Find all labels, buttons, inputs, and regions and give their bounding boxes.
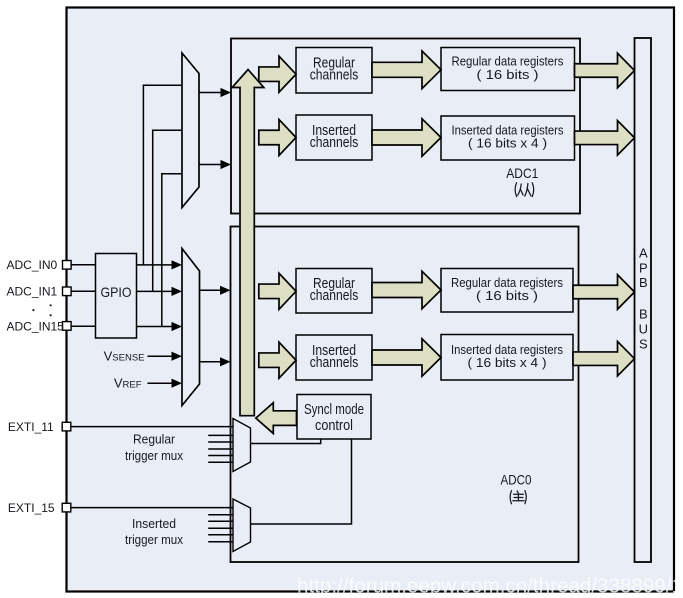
box Inserted data registers ADC1 — [441, 116, 575, 160]
block ADC1 (slave) outline — [231, 39, 580, 214]
svg-text:trigger mux: trigger mux — [125, 448, 183, 463]
arrow into Inserted channels ADC1 — [259, 120, 296, 156]
arrow Inserted channels to Inserted data registers ADC1 — [372, 119, 441, 157]
wire ADC_IN1 port to GPIO — [71, 290, 96, 292]
wire ADC1 mux output inserted — [199, 164, 222, 166]
svg-text:( 16 bits ): ( 16 bits ) — [477, 68, 539, 82]
vertical sync arrow between ADC0 and ADC1 — [232, 70, 264, 416]
svg-text:GPIO: GPIO — [101, 284, 132, 300]
box Syncl mode control — [297, 395, 371, 440]
svg-text:Regular data registers: Regular data registers — [451, 276, 563, 290]
box Regular channels ADC0 — [296, 269, 372, 314]
wire ADC0 mux output regular — [200, 289, 222, 291]
box Regular data registers ADC1 — [441, 48, 575, 91]
arrow Regular channels to Regular data registers ADC0 — [372, 271, 441, 309]
arrow into Regular channels ADC1 — [259, 56, 296, 92]
svg-text:U: U — [639, 321, 648, 336]
GPIO box — [96, 254, 137, 339]
wire EXTI_15 to inserted trigger mux — [71, 507, 233, 509]
svg-text:control: control — [315, 417, 353, 434]
wire regular trigger mux to Syncl mode control — [251, 439, 321, 444]
port pin ADC_IN15 — [63, 322, 72, 331]
port pin EXTI_11 — [62, 422, 71, 431]
arrow into Inserted channels ADC0 — [259, 342, 296, 378]
arrow Regular data registers ADC1 to APB bus — [575, 53, 635, 88]
APB bus box — [635, 38, 652, 562]
arrow Regular channels to Regular data registers ADC1 — [372, 51, 441, 89]
wire inserted trigger mux to Syncl mode control — [251, 439, 352, 524]
wire GPIO to analog mux input 15 — [137, 326, 173, 328]
svg-text:Syncl mode: Syncl mode — [304, 401, 364, 418]
port pin ADC_IN1 — [63, 287, 72, 296]
wire branch up to ADC1 mux input 1 — [153, 130, 182, 291]
svg-text:Regular data registers: Regular data registers — [452, 55, 564, 69]
wire EXTI_11 to regular trigger mux — [71, 426, 233, 428]
wire VSENSE to mux — [148, 355, 173, 357]
port pin ADC_IN0 — [63, 261, 72, 270]
wire branch up to ADC1 mux input 15 — [162, 174, 182, 327]
svg-text:( 16 bits x 4 ): ( 16 bits x 4 ) — [468, 137, 547, 151]
svg-text:ADC_IN1: ADC_IN1 — [7, 285, 58, 299]
wire ADC1 mux output regular — [199, 92, 222, 94]
arrow into Regular channels ADC0 — [259, 273, 296, 309]
svg-text:ADC_IN15: ADC_IN15 — [7, 319, 65, 333]
wire ADC0 mux output inserted — [200, 361, 222, 363]
wire ADC_IN0 port to GPIO — [71, 264, 96, 266]
svg-text:ADC0: ADC0 — [501, 471, 532, 487]
ellipsis dots between channel labels — [32, 309, 34, 311]
box Regular channels ADC1 — [296, 48, 372, 94]
arrow Syncl mode control to sync bus — [256, 403, 297, 434]
box Inserted channels ADC0 — [296, 335, 372, 380]
box Inserted channels ADC1 — [296, 115, 372, 160]
svg-text:EXTI_11: EXTI_11 — [8, 420, 54, 434]
svg-text:( 16 bits ): ( 16 bits ) — [476, 289, 538, 303]
mux ADC0 channel select — [182, 249, 200, 406]
svg-text:Regular: Regular — [133, 432, 176, 447]
svg-text:S: S — [639, 336, 648, 351]
svg-text:B: B — [639, 306, 648, 321]
svg-text:EXTI_15: EXTI_15 — [8, 501, 55, 515]
wire ADC_IN15 port to GPIO — [71, 325, 96, 327]
svg-text:A: A — [639, 246, 648, 261]
regular trigger mux input stubs — [208, 434, 233, 436]
wire VREF to mux — [148, 382, 173, 384]
svg-text:channels: channels — [310, 134, 359, 151]
svg-text:P: P — [639, 260, 648, 275]
mux inserted trigger — [233, 499, 251, 552]
arrow Inserted channels to Inserted data registers ADC0 — [372, 339, 441, 377]
arrow Inserted data registers ADC1 to APB bus — [575, 121, 635, 156]
mux regular trigger — [233, 419, 251, 472]
svg-text:trigger mux: trigger mux — [125, 532, 183, 547]
label (zhu) master marker — [510, 491, 526, 504]
svg-text:Inserted: Inserted — [132, 516, 176, 531]
svg-text:( 16 bits x 4 ): ( 16 bits x 4 ) — [468, 356, 547, 370]
svg-text:channels: channels — [310, 67, 359, 84]
box Regular data registers ADC0 — [441, 269, 573, 313]
svg-text:channels: channels — [310, 287, 359, 304]
mux ADC1 channel select — [182, 53, 199, 208]
block ADC0 (master) outline — [231, 227, 579, 563]
arrow Inserted data registers ADC0 to APB bus — [573, 341, 635, 376]
svg-text:Inserted data registers: Inserted data registers — [451, 343, 563, 357]
svg-text:ADC1: ADC1 — [506, 165, 538, 181]
wire GPIO to analog mux input 1 — [137, 290, 173, 292]
svg-text:Inserted data registers: Inserted data registers — [452, 123, 564, 137]
wire GPIO to analog mux input 0 — [137, 264, 173, 266]
inserted trigger mux input stubs — [208, 514, 233, 516]
box Inserted data registers ADC0 — [441, 335, 573, 381]
label (cong) slave marker — [515, 183, 534, 197]
svg-text:ADC_IN0: ADC_IN0 — [7, 258, 58, 272]
svg-text:channels: channels — [310, 354, 359, 371]
svg-text:http://forum.eepw.com.cn/threa: http://forum.eepw.com.cn/thread/338899/1 — [297, 575, 683, 598]
arrow Regular data registers ADC0 to APB bus — [573, 275, 635, 310]
port pin EXTI_15 — [62, 503, 71, 512]
svg-text:B: B — [639, 275, 648, 290]
wire branch up to ADC1 mux input 0 — [143, 85, 182, 265]
